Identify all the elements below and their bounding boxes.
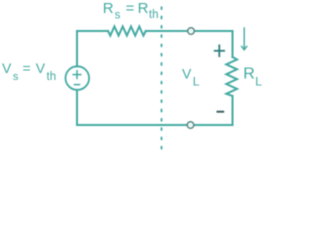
wire left vertical upper <box>76 31 78 66</box>
wire right vertical upper <box>232 31 234 57</box>
svg-text:=: = <box>126 0 135 17</box>
voltage source minus sign <box>75 84 80 86</box>
svg-text:th: th <box>47 71 57 83</box>
svg-text:V: V <box>182 66 192 82</box>
wire right vertical lower <box>232 96 234 125</box>
svg-text:R: R <box>243 65 255 82</box>
svg-text:L: L <box>255 74 262 88</box>
svg-text:th: th <box>149 9 159 21</box>
minus sign load <box>218 111 224 113</box>
svg-text:R: R <box>138 0 149 17</box>
wire top-right horizontal <box>146 30 233 32</box>
wire left vertical lower <box>76 90 78 125</box>
wire bottom horizontal <box>77 124 233 126</box>
voltage source plus sign <box>73 71 81 79</box>
wire top-left horizontal <box>77 30 108 32</box>
current arrow <box>241 28 247 50</box>
svg-text:R: R <box>103 0 114 17</box>
resistor Rs zigzag <box>108 26 146 35</box>
resistor RL zigzag <box>226 57 237 96</box>
plus sign load <box>215 45 224 56</box>
svg-text:s: s <box>115 10 121 22</box>
svg-text:V: V <box>2 60 12 76</box>
voltage source V1 circle <box>66 66 90 90</box>
dashed separation line <box>161 7 163 153</box>
node terminal bottom <box>187 122 194 129</box>
svg-text:V: V <box>36 60 46 76</box>
svg-text:s: s <box>13 71 19 83</box>
node terminal top <box>188 28 195 35</box>
svg-text:L: L <box>193 74 200 88</box>
svg-text:=: = <box>23 60 31 76</box>
